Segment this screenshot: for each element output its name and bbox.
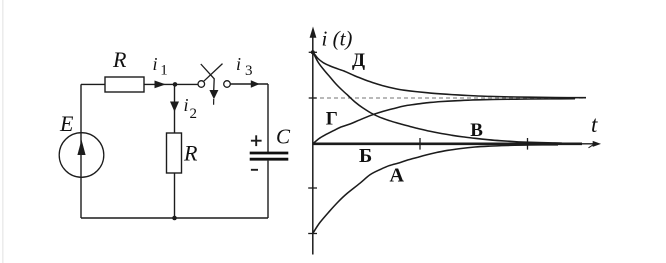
switch S1 contact left	[198, 81, 205, 88]
current arrow i2	[170, 102, 179, 112]
svg-text:i: i	[184, 95, 189, 115]
tick y-axis at curve A start	[308, 233, 317, 235]
svg-text:i (t): i (t)	[322, 27, 353, 51]
current arrow i3	[251, 80, 260, 87]
node A (junction dot)	[173, 82, 178, 87]
svg-text:Б: Б	[359, 145, 372, 167]
wire bottom rail	[81, 217, 268, 219]
switch S1 contact right	[224, 81, 231, 88]
wire top-left segment	[81, 83, 105, 85]
svg-text:1: 1	[160, 63, 168, 79]
label i3	[236, 54, 253, 79]
svg-text:t: t	[591, 112, 598, 137]
svg-text:i: i	[236, 54, 241, 74]
wire right rail upper	[267, 84, 269, 152]
wire middle branch upper	[174, 84, 176, 133]
curve G (Г)	[313, 99, 575, 144]
svg-text:Д: Д	[352, 50, 365, 71]
label i1	[153, 54, 168, 79]
curve V (В)	[313, 52, 562, 143]
svg-text:2: 2	[190, 106, 198, 122]
resistor R1	[105, 77, 144, 92]
label + (capacitor polarity)	[251, 135, 262, 146]
curve A (А)	[313, 145, 558, 233]
tick y-axis negative mid	[308, 187, 317, 189]
node: curves origin dot	[311, 50, 315, 54]
tick y-axis at curve start	[309, 51, 317, 53]
svg-text:i: i	[153, 54, 158, 74]
source E circle	[59, 133, 104, 178]
svg-text:3: 3	[245, 63, 253, 79]
wire middle branch lower	[174, 173, 176, 218]
svg-text:А: А	[390, 165, 405, 187]
tick x-axis 2	[527, 138, 529, 150]
source E arrow	[77, 140, 85, 155]
node B (bottom junction dot)	[172, 216, 177, 221]
decorative page edge	[2, 0, 4, 263]
resistor R2	[167, 133, 182, 173]
svg-text:Г: Г	[326, 108, 338, 129]
x-axis t (thick, curve B lies on it)	[313, 141, 601, 148]
y-axis i(t)	[310, 27, 317, 255]
svg-text:C: C	[276, 125, 291, 149]
svg-text:R: R	[183, 141, 198, 166]
wire switch to right rail	[230, 83, 268, 85]
capacitor C1 plate top	[250, 152, 289, 155]
current arrow i1	[155, 81, 166, 89]
svg-text:E: E	[59, 111, 74, 136]
svg-text:В: В	[470, 120, 483, 141]
dashed asymptote line	[313, 97, 586, 99]
label - (capacitor polarity)	[251, 169, 258, 171]
svg-text:R: R	[112, 47, 127, 72]
switch S1 blade	[204, 64, 223, 82]
tick x-axis 1	[419, 138, 421, 150]
wire left rail	[80, 84, 82, 218]
wire right rail lower	[267, 161, 269, 218]
tick y-axis at dashed level	[309, 97, 317, 99]
switch S1 closing-direction arrow	[201, 64, 219, 105]
wire resistor R1 to node A	[144, 83, 198, 85]
capacitor C1 plate bottom	[250, 158, 289, 161]
curve D (Д)	[313, 52, 586, 98]
label i2	[184, 95, 198, 122]
